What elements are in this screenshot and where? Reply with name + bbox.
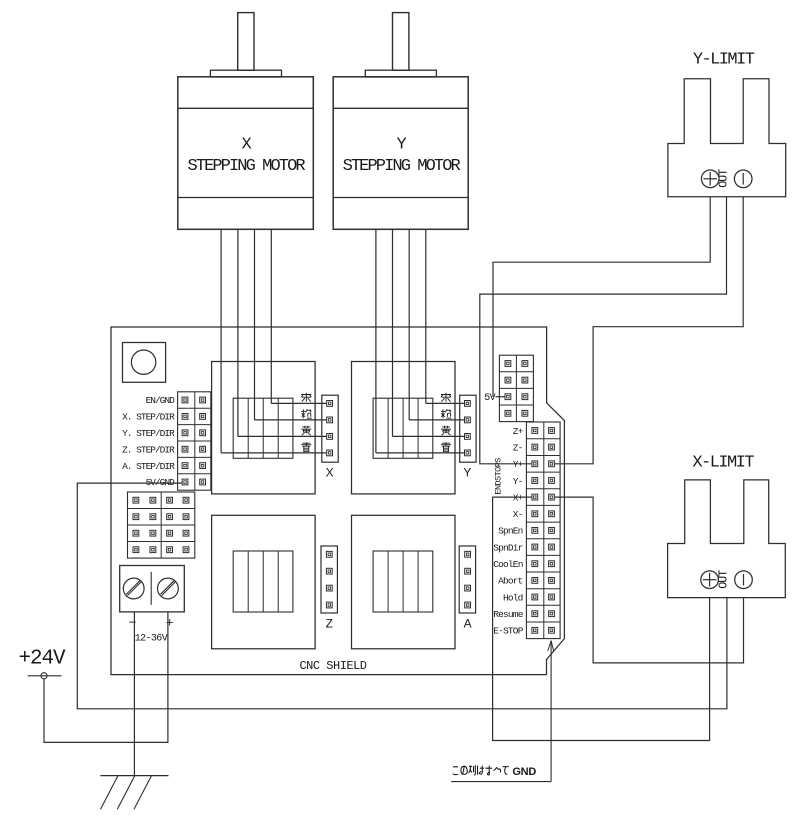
connector X pin 3 (327, 434, 333, 440)
driver module Y chip (373, 398, 433, 458)
pin jumper grid r1c4 (183, 497, 189, 503)
connector Z pin 4 (326, 602, 332, 608)
driver module A chip (373, 551, 433, 612)
wire color label ao (blue) for X (301, 442, 311, 452)
pin endstops row CoolEn col 2 (549, 561, 555, 567)
pin jumper grid r3c3 (167, 530, 173, 536)
svg-text:SpnDir: SpnDir (493, 542, 523, 553)
svg-text:Hold: Hold (503, 592, 523, 603)
connector A pin 2 (465, 568, 471, 574)
pin 5V header row 2 col 1 (505, 377, 511, 383)
pin left header row 6 col 2 (200, 479, 206, 485)
5V header grid (499, 355, 533, 421)
driver module X chip (233, 398, 293, 458)
wire Y-LIMIT OUT to Y+ pin col1 (480, 197, 727, 464)
pin jumper grid r3c1 (133, 530, 139, 536)
pin jumper grid r4c4 (183, 547, 189, 553)
svg-text:STEPPING MOTOR: STEPPING MOTOR (343, 157, 461, 176)
pin endstops row Abort col 1 (532, 578, 538, 584)
svg-text:CNC SHIELD: CNC SHIELD (299, 659, 366, 673)
connector Z pin 2 (326, 568, 332, 574)
wire Y phase 1 to connector (426, 402, 464, 404)
wire Y phase 2 to connector (409, 419, 464, 421)
connector Y pin 1 (465, 401, 471, 407)
pin jumper grid r1c3 (167, 497, 173, 503)
wire color label cha (brown) for X (301, 393, 311, 402)
pin endstops row X- col 1 (532, 511, 538, 517)
motor Y upper section line (333, 107, 468, 109)
svg-text:5V: 5V (484, 393, 495, 404)
ground bar (100, 775, 168, 777)
pin endstops row CoolEn col 1 (532, 561, 538, 567)
pin left header row 4 col 2 (200, 446, 206, 452)
connector Y pin 3 (465, 434, 471, 440)
svg-text:+: + (166, 616, 174, 631)
svg-text:Y+: Y+ (513, 459, 524, 470)
motor X lower section line (178, 197, 313, 199)
pin jumper grid r4c3 (167, 547, 173, 553)
pin jumper grid r1c1 (133, 497, 139, 503)
connector Y pin 2 (465, 417, 471, 423)
pin left header row 1 col 2 (200, 397, 206, 403)
pin endstops row Y+ col 2 (549, 461, 555, 467)
endstops pin table grid (526, 422, 560, 639)
GND note japanese text kono retsu wa subete (453, 765, 509, 775)
svg-text:+24V: +24V (18, 648, 66, 671)
X-LIMIT minus terminal circle (735, 571, 753, 589)
motor X shaft (238, 13, 254, 71)
pin 5V header row 4 col 1 (505, 410, 511, 416)
pin 5V header row 3 col 1 (505, 394, 511, 400)
wire Y phase 3 to connector (393, 435, 465, 437)
pin 5V header row 1 col 2 (522, 361, 528, 367)
pin endstops row Y+ col 1 (532, 461, 538, 467)
motor X upper section line (178, 107, 313, 109)
connector Z pin 1 (326, 551, 332, 557)
connector X pin 1 (327, 401, 333, 407)
svg-text:X+: X+ (513, 492, 524, 503)
stepping motor X body (178, 77, 313, 230)
wire X motor lead 3 (254, 229, 256, 420)
Y-LIMIT plus terminal circle (701, 170, 719, 188)
pin left header row 5 col 1 (182, 463, 188, 469)
pin jumper grid r2c2 (150, 514, 156, 520)
svg-text:OUT: OUT (718, 570, 731, 589)
pin endstops row SpnDir col 1 (532, 544, 538, 550)
svg-text:STEPPING MOTOR: STEPPING MOTOR (187, 157, 305, 176)
pin left header row 4 col 1 (182, 446, 188, 452)
wire Y motor lead 1 (375, 229, 377, 453)
pin jumper grid r2c3 (167, 514, 173, 520)
pin jumper grid r4c1 (133, 547, 139, 553)
svg-text:−: − (129, 616, 137, 631)
pin endstops row Y- col 1 (532, 478, 538, 484)
wire color label ki (yellow) for X (301, 426, 311, 436)
wire color label cha (brown) for Y (441, 393, 451, 402)
pin endstops row Resume col 2 (549, 611, 555, 617)
pin jumper grid r4c2 (150, 547, 156, 553)
pin endstops row X+ col 2 (549, 494, 555, 500)
wire X-LIMIT OUT to 5V/GND pin (77, 483, 727, 709)
svg-text:E-STOP: E-STOP (493, 626, 524, 637)
GND note underline (451, 781, 551, 783)
wire X phase 4 to connector (221, 452, 326, 454)
pin endstops row Z- col 2 (549, 444, 555, 450)
connector Z outline (321, 546, 337, 613)
left control header grid (178, 392, 211, 490)
connector X outline (322, 395, 338, 462)
X-LIMIT plus terminal circle (701, 571, 719, 589)
X-LIMIT switch body (668, 480, 786, 598)
reset button circle (131, 350, 155, 374)
svg-text:Z-: Z- (513, 442, 523, 453)
pin endstops row SpnEn col 2 (549, 528, 555, 534)
pin endstops row X+ col 1 (532, 494, 538, 500)
ground hatch 3 (134, 776, 152, 810)
pin 5V header row 3 col 2 (522, 394, 528, 400)
wire Y-LIMIT plus to 5V (493, 197, 710, 397)
pin left header row 1 col 1 (182, 397, 188, 403)
+24V terminal bar (28, 675, 62, 677)
svg-text:CoolEn: CoolEn (493, 559, 523, 570)
svg-text:X-: X- (513, 509, 523, 520)
pin jumper grid r3c2 (150, 530, 156, 536)
pin endstops row SpnDir col 2 (549, 544, 555, 550)
driver module A outline (352, 515, 456, 649)
pin endstops row X- col 2 (549, 511, 555, 517)
screw terminal 2 (158, 578, 179, 599)
svg-text:A. STEP/DIR: A. STEP/DIR (122, 461, 175, 472)
pin 5V header row 2 col 2 (522, 377, 528, 383)
connector Z pin 3 (326, 585, 332, 591)
power terminal block (120, 566, 185, 612)
wire X motor lead 1 (220, 229, 222, 453)
svg-text:Y-: Y- (513, 476, 523, 487)
ground hatch 1 (101, 776, 119, 810)
wire +24V to plus terminal (44, 612, 168, 743)
wire color label ki (yellow) for Y (441, 426, 451, 436)
driver module Z chip (233, 551, 293, 612)
wire X phase 3 to connector (238, 435, 327, 437)
pin jumper grid r1c2 (150, 497, 156, 503)
pin endstops row Abort col 2 (549, 578, 555, 584)
pin left header row 5 col 2 (200, 463, 206, 469)
motor Y lower section line (333, 197, 468, 199)
wire Y motor lead 4 (425, 229, 427, 403)
connector A pin 4 (465, 602, 471, 608)
pin endstops row Z+ col 1 (532, 428, 538, 434)
svg-text:Y: Y (463, 466, 471, 480)
jumper grid 4x4 (128, 492, 195, 558)
motor X flange (210, 70, 281, 77)
wire color label dai (orange) for X (301, 409, 312, 418)
pin endstops row Z+ col 2 (549, 428, 555, 434)
wire X-LIMIT plus to X+ pin col1 (493, 497, 710, 740)
wire X phase 1 to connector (271, 402, 326, 404)
wire X motor lead 4 (270, 229, 272, 403)
wire minus terminal to ground (133, 612, 135, 776)
wire Y motor lead 3 (408, 229, 410, 420)
wire color label ao (blue) for Y (441, 442, 451, 452)
pin jumper grid r2c1 (133, 514, 139, 520)
pin 5V header row 1 col 1 (505, 361, 511, 367)
wire X phase 2 to connector (255, 419, 327, 421)
pin 5V header row 4 col 2 (522, 410, 528, 416)
pin left header row 3 col 2 (200, 430, 206, 436)
svg-text:OUT: OUT (718, 169, 731, 188)
connector Y pin 4 (465, 450, 471, 456)
pin endstops row Z- col 1 (532, 444, 538, 450)
wire X-LIMIT minus to X+ pin col2 (555, 497, 744, 663)
pin left header row 6 col 1 (182, 479, 188, 485)
svg-text:Abort: Abort (498, 576, 523, 587)
stepping motor Y body (333, 77, 468, 230)
pin endstops row Hold col 1 (532, 594, 538, 600)
svg-text:Y. STEP/DIR: Y. STEP/DIR (122, 428, 175, 439)
ground hatch 2 (117, 776, 135, 810)
svg-text:Z+: Z+ (513, 426, 524, 437)
wire Y motor lead 2 (392, 229, 394, 436)
pin left header row 2 col 2 (200, 414, 206, 420)
svg-text:X. STEP/DIR: X. STEP/DIR (122, 412, 175, 423)
svg-text:EN/GND: EN/GND (146, 395, 176, 406)
svg-text:X: X (326, 466, 334, 480)
driver module Y outline (352, 362, 456, 494)
driver module Z outline (212, 515, 316, 649)
pin endstops row E-STOP col 2 (549, 627, 555, 633)
svg-text:SpnEn: SpnEn (498, 526, 523, 537)
wire Y phase 4 to connector (376, 452, 464, 454)
connector Y outline (460, 395, 476, 462)
svg-text:A: A (464, 616, 472, 630)
terminal divider (150, 572, 152, 605)
svg-text:Z: Z (326, 616, 333, 630)
svg-text:Z. STEP/DIR: Z. STEP/DIR (122, 444, 175, 455)
connector A outline (459, 546, 475, 613)
screw terminal 1 (123, 578, 144, 599)
svg-text:Resume: Resume (493, 609, 524, 620)
pin left header row 3 col 1 (182, 430, 188, 436)
pin endstops row Hold col 2 (549, 594, 555, 600)
pin endstops row Y- col 2 (549, 478, 555, 484)
wire color label dai (orange) for Y (441, 409, 452, 418)
pin endstops row E-STOP col 1 (532, 627, 538, 633)
GND note arrow (548, 641, 554, 782)
+24V terminal circle (41, 673, 47, 679)
svg-text:12-36V: 12-36V (135, 633, 168, 644)
CNC shield board outline (111, 327, 564, 675)
pin jumper grid r3c4 (183, 530, 189, 536)
Y-LIMIT switch body (668, 79, 786, 197)
reset button square (123, 343, 166, 383)
5V label leader line (496, 396, 505, 398)
Y-LIMIT minus terminal circle (734, 170, 752, 188)
svg-text:GND: GND (512, 766, 536, 778)
svg-text:X-LIMIT: X-LIMIT (692, 453, 754, 472)
driver module X outline (212, 362, 316, 494)
svg-text:Y-LIMIT: Y-LIMIT (693, 50, 755, 69)
connector A pin 3 (465, 585, 471, 591)
motor Y shaft (393, 13, 409, 71)
pin jumper grid r2c4 (183, 514, 189, 520)
pin endstops row Resume col 1 (532, 611, 538, 617)
wire X motor lead 2 (237, 229, 239, 436)
motor Y flange (365, 70, 436, 77)
wire Y-LIMIT minus to Y+ pin col2 (555, 197, 743, 464)
connector X pin 2 (327, 417, 333, 423)
pin endstops row SpnEn col 1 (532, 528, 538, 534)
pin left header row 2 col 1 (182, 414, 188, 420)
connector A pin 1 (465, 551, 471, 557)
connector X pin 4 (327, 450, 333, 456)
